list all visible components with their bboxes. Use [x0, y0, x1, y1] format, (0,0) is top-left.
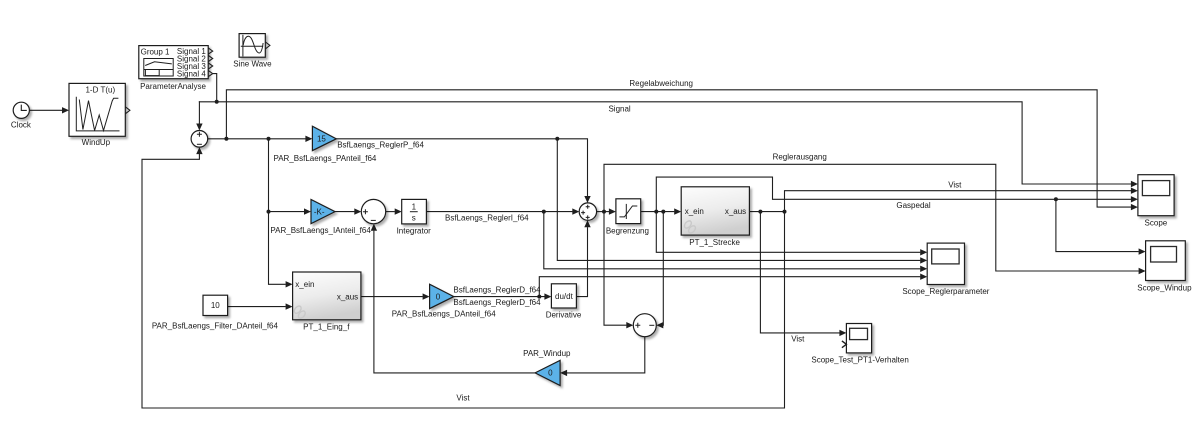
svg-text:x_aus: x_aus: [725, 207, 746, 216]
wire to I gain input: [269, 211, 304, 213]
svg-text:du/dt: du/dt: [555, 292, 574, 301]
node junction I branch to scope line: [542, 210, 546, 214]
wire Gaspedal branch down to Scope_Reglerparameter line 1: [656, 212, 920, 253]
svg-text:PAR_BsfLaengs_IAnteil_f64: PAR_BsfLaengs_IAnteil_f64: [270, 226, 371, 235]
wire Sum1 output to P gain: [208, 138, 305, 140]
wire into Sum1 top: [198, 102, 200, 123]
node junction Reglerausgang: [602, 210, 606, 214]
wire down to Sum4 minus input: [662, 212, 664, 326]
svg-text:PT_1_Strecke: PT_1_Strecke: [689, 238, 740, 247]
wire Sum2 output to Integrator: [386, 211, 395, 213]
sum block Sum2: [361, 199, 385, 223]
node junction Gaspedal to Scope_Windup branch: [1054, 197, 1058, 201]
subsystem block PT_1_Strecke: [681, 187, 749, 247]
wire Derivative output to Sum3 bottom: [576, 228, 587, 297]
svg-text:0: 0: [436, 292, 441, 301]
svg-text:Scope: Scope: [1145, 219, 1168, 228]
svg-text:Vist: Vist: [791, 335, 805, 344]
wire Gaspedal net (loop over PT_1_Strecke to Scope input 3): [656, 177, 1130, 212]
gain block PAR_Windup (value 0, left-pointing): [523, 349, 571, 386]
scope block Scope_Windup: [1137, 241, 1192, 293]
wire Sum4 output to PAR_Windup gain: [568, 337, 645, 373]
svg-text:x_ein: x_ein: [295, 280, 314, 289]
subsystem block PT_1_Eing_f: [293, 272, 361, 332]
node junction P branch to scope line: [555, 137, 559, 141]
svg-text:15: 15: [317, 135, 326, 144]
sum block Sum4 (windup difference): [633, 314, 656, 337]
node junction Regelabweichung branch: [224, 137, 228, 141]
wire Regelabweichung net (to Scope input 4): [226, 90, 1130, 207]
wire Begrenzung output to PT_1_Strecke: [641, 211, 674, 213]
derivative block Derivative (du/dt): [546, 284, 582, 320]
wire PT_1_Strecke output: [749, 211, 784, 213]
svg-text:1-D T(u): 1-D T(u): [85, 86, 115, 95]
svg-text:PAR_BsfLaengs_PAnteil_f64: PAR_BsfLaengs_PAnteil_f64: [273, 154, 376, 163]
svg-text:Clock: Clock: [11, 120, 32, 129]
svg-text:s: s: [412, 214, 416, 223]
svg-text:Scope_Reglerparameter: Scope_Reglerparameter: [902, 287, 989, 296]
scope block Scope: [1138, 175, 1174, 228]
node junction Vist to Scope_Test branch: [758, 210, 762, 214]
wire P gain output to Sum3 top: [336, 139, 587, 196]
wire P branch down to Scope_Reglerparameter line 2: [557, 139, 920, 261]
wire PAR_Windup gain output to Sum2 bottom: [374, 231, 535, 373]
svg-text:PT_1_Eing_f: PT_1_Eing_f: [303, 323, 350, 332]
svg-text:Reglerausgang: Reglerausgang: [773, 153, 827, 162]
wire D branch up to Scope_Reglerparameter line 4: [539, 277, 920, 297]
wire ParameterAnalyse Signal4 to Signal node: [213, 74, 217, 102]
svg-text:BsfLaengs_ReglerD_f64: BsfLaengs_ReglerD_f64: [453, 298, 541, 307]
wire Signal net (to Scope input 1): [199, 102, 1130, 184]
signal builder block ParameterAnalyse: [139, 46, 213, 92]
wire Sum3 output to Begrenzung: [597, 211, 609, 213]
node junction I/D column branch: [267, 137, 271, 141]
wire Reglerausgang down to Sum4 + input: [604, 212, 626, 326]
svg-text:Group 1: Group 1: [141, 47, 170, 56]
gain block PAR_BsfLaengs_DAnteil_f64 (D gain, value 0): [392, 284, 541, 318]
gain block PAR_BsfLaengs_IAnteil_f64 (I gain, value -K-): [270, 200, 371, 235]
svg-text:Vist: Vist: [948, 180, 962, 189]
scope block Scope_Reglerparameter: [902, 243, 989, 296]
constant block PAR_BsfLaengs_Filter_DAnteil_f64 (value 10): [152, 295, 279, 330]
svg-text:BsfLaengs_ReglerI_f64: BsfLaengs_ReglerI_f64: [445, 214, 529, 223]
svg-text:10: 10: [211, 301, 220, 310]
node junction to I gain: [267, 210, 271, 214]
wire Gaspedal branch to Scope_Windup input 1: [1056, 199, 1138, 251]
svg-text:x_ein: x_ein: [685, 207, 704, 216]
svg-text:PAR_BsfLaengs_Filter_DAnteil_f: PAR_BsfLaengs_Filter_DAnteil_f64: [152, 322, 279, 331]
wire I gain output to Sum2: [335, 211, 354, 213]
svg-text:ParameterAnalyse: ParameterAnalyse: [140, 82, 206, 91]
svg-text:Scope_Windup: Scope_Windup: [1137, 283, 1192, 292]
svg-text:BsfLaengs_ReglerP_f64: BsfLaengs_ReglerP_f64: [337, 140, 424, 149]
wire Constant 10 to PT_1_Eing_f input 2: [228, 306, 286, 308]
saturation block Begrenzung: [606, 199, 649, 236]
svg-text:-K-: -K-: [314, 207, 325, 216]
svg-text:BsfLaengs_ReglerD_f64: BsfLaengs_ReglerD_f64: [453, 286, 541, 295]
wire I branch down to Scope_Reglerparameter line 3: [544, 212, 920, 269]
sum block Sum1: [191, 131, 208, 148]
scope block Scope_Test_PT1-Verhalten: [811, 324, 908, 365]
svg-text:Gaspedal: Gaspedal: [896, 201, 930, 210]
wire D gain output to Derivative: [454, 296, 544, 298]
svg-text:Signal: Signal: [608, 104, 630, 113]
svg-text:PAR_Windup: PAR_Windup: [523, 349, 571, 358]
sine source block Sine Wave: [233, 34, 272, 69]
integrator block Integrator (1/s): [397, 199, 530, 235]
sum block Sum3 (P+I+D): [579, 203, 596, 220]
wire PT_1_Eing_f output to D gain: [361, 296, 422, 298]
wire Integrator output to Sum3: [426, 211, 572, 213]
clock source block Clock: [11, 102, 32, 129]
svg-text:Regelabweichung: Regelabweichung: [629, 79, 693, 88]
svg-text:Derivative: Derivative: [546, 311, 582, 320]
lookup table block WindUp: [69, 83, 130, 146]
node junction on Signal line: [215, 100, 219, 104]
svg-text:Vist: Vist: [456, 394, 470, 403]
wire Clock to WindUp: [29, 109, 62, 111]
svg-text:Integrator: Integrator: [397, 226, 432, 235]
wire Vist feedback (bottom) to Sum1 minus input: [142, 154, 785, 408]
svg-text:Signal 4: Signal 4: [177, 70, 206, 79]
svg-text:1: 1: [412, 202, 417, 211]
node junction Vist main: [783, 210, 787, 214]
svg-text:Scope_Test_PT1-Verhalten: Scope_Test_PT1-Verhalten: [811, 356, 908, 365]
wire Reglerausgang net to Scope_Windup input 2: [604, 164, 1138, 271]
svg-text:Begrenzung: Begrenzung: [606, 227, 649, 236]
wire Vist net up to Scope input 2: [785, 191, 1131, 212]
gain block PAR_BsfLaengs_PAnteil_f64 (P gain, value 15): [273, 126, 424, 163]
wire error signal down-column: [269, 139, 286, 284]
svg-text:PAR_BsfLaengs_DAnteil_f64: PAR_BsfLaengs_DAnteil_f64: [392, 310, 496, 319]
wire Vist branch to Scope_Test_PT1-Verhalten: [760, 212, 839, 333]
node junction to Sum4 minus: [661, 210, 665, 214]
node junction Gaspedal loop: [654, 210, 658, 214]
svg-text:Sine Wave: Sine Wave: [233, 59, 272, 68]
node junction D branch to scope line: [537, 295, 541, 299]
svg-text:WindUp: WindUp: [82, 138, 111, 147]
svg-text:0: 0: [548, 369, 553, 378]
svg-text:x_aus: x_aus: [337, 293, 358, 302]
